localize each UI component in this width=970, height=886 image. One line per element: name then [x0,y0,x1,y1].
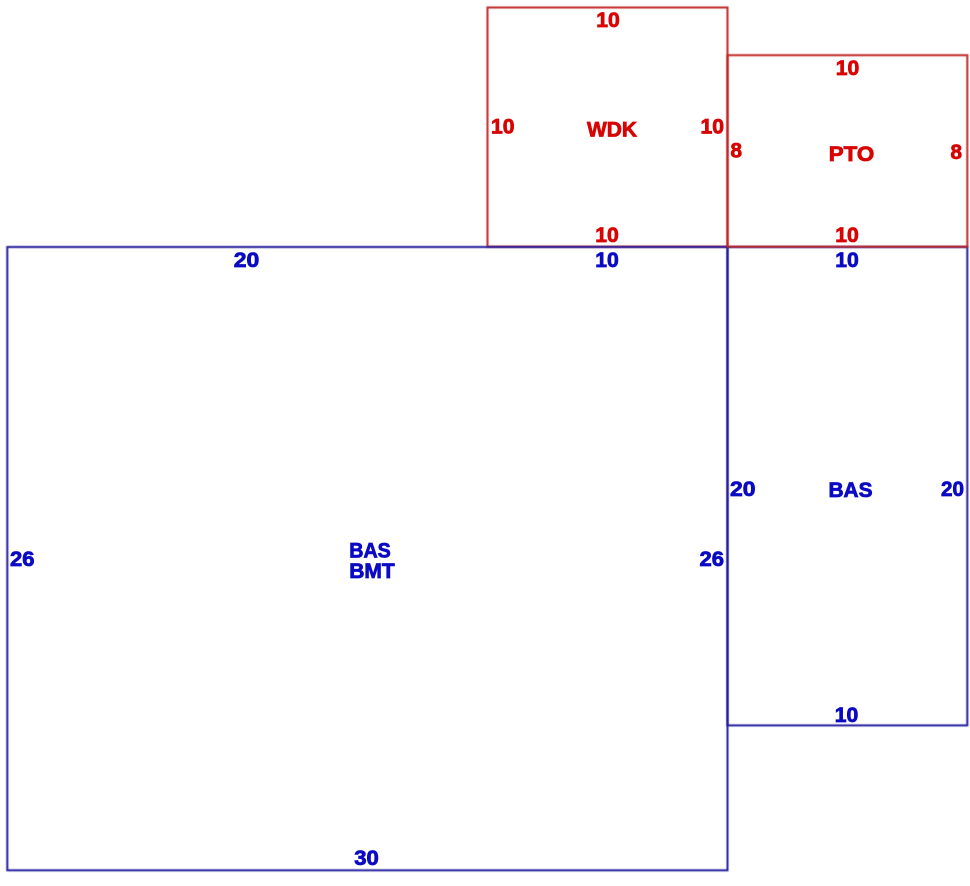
svg-text:WDK: WDK [587,119,637,142]
svg-text:20: 20 [234,249,260,272]
svg-text:8: 8 [731,140,743,163]
svg-text:10: 10 [701,116,725,139]
svg-text:30: 30 [354,847,379,870]
svg-text:8: 8 [951,141,963,164]
svg-text:10: 10 [491,116,515,139]
svg-text:10: 10 [595,249,619,272]
svg-text:26: 26 [10,548,35,571]
svg-text:10: 10 [835,249,859,272]
svg-text:10: 10 [595,224,619,247]
svg-text:10: 10 [835,704,859,727]
svg-text:26: 26 [700,548,725,571]
svg-text:10: 10 [835,224,859,247]
svg-text:10: 10 [596,9,620,32]
svg-text:PTO: PTO [829,143,875,166]
BAS/BMT main floor outline [7,247,727,870]
BAS right-wing outline [728,247,968,725]
svg-text:BAS: BAS [349,539,391,562]
PTO patio outline [728,55,968,247]
svg-text:20: 20 [941,478,964,501]
svg-text:BAS: BAS [829,479,873,502]
WDK wood deck outline [488,8,728,247]
svg-text:20: 20 [730,478,756,501]
svg-text:BMT: BMT [349,560,395,583]
svg-text:10: 10 [836,57,860,80]
